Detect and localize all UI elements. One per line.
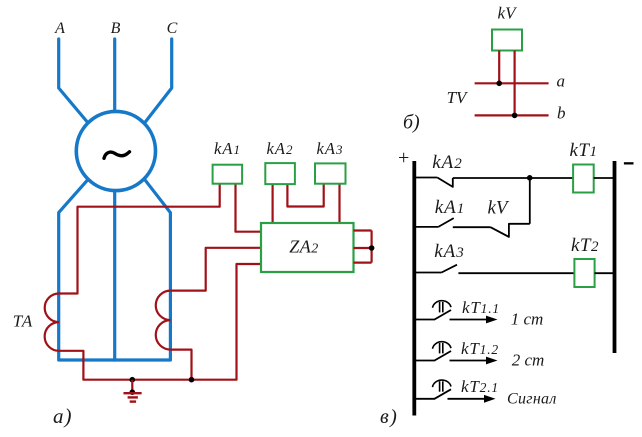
wire phase A lower (stator winding left leg)	[59, 180, 114, 360]
contact kT2.1 (time-delay contact)	[416, 380, 451, 399]
ZA2 output shorting bar	[371, 231, 373, 263]
voltage relay kV coil	[492, 30, 522, 51]
svg-text:+: +	[397, 147, 411, 169]
current transformer TA left secondary winding	[45, 294, 59, 351]
generator G1 tilde symbol	[104, 152, 130, 159]
ZA2 output junction node	[369, 245, 375, 251]
svg-text:1 ст: 1 ст	[511, 310, 544, 329]
negative supply bus	[613, 161, 617, 353]
svg-text:kT2: kT2	[571, 235, 599, 256]
generator G1 circle	[76, 111, 155, 190]
ZA2 right pin 3	[354, 262, 372, 264]
contact kA2	[416, 178, 453, 187]
svg-text:а): а)	[53, 404, 73, 428]
positive supply bus	[412, 161, 416, 416]
wire kA2 left lead to ZA2 top	[272, 184, 274, 223]
wire kA3 right lead to ZA2 top	[338, 184, 340, 223]
output arrow 2nd stage	[450, 357, 498, 365]
wire kA2 right lead to kA3 left lead	[287, 184, 323, 207]
wire row3 to kT2	[458, 272, 574, 274]
time relay coil kT1	[573, 165, 594, 193]
svg-text:2 ст: 2 ст	[512, 351, 545, 370]
contact kV	[491, 224, 530, 237]
wire from ZA2 pin to right CT	[171, 248, 262, 291]
svg-text:kT1.1: kT1.1	[462, 298, 500, 317]
svg-text:a: a	[557, 72, 566, 91]
wire from kA1 left lead to left CT	[59, 184, 220, 294]
wire kV branch riser to row1	[529, 178, 531, 224]
wire phase B lower (stator winding middle leg)	[113, 192, 116, 361]
svg-text:kT1: kT1	[570, 140, 598, 161]
svg-text:б): б)	[403, 112, 420, 134]
ZA2 right pin 1	[354, 229, 372, 231]
wire kT2 to negative bus	[595, 272, 613, 274]
relay coil kA1	[213, 165, 243, 184]
wire phase B top	[113, 39, 116, 111]
ground junction node	[130, 377, 136, 383]
minus terminal label	[624, 162, 634, 164]
wire kA1 right lead to ZA2	[236, 184, 262, 232]
wire kV coil right lead to line b	[513, 51, 515, 116]
relay coil kA2	[265, 163, 295, 184]
svg-text:kA3: kA3	[434, 241, 465, 262]
svg-text:kV: kV	[487, 198, 509, 219]
time relay coil kT2	[574, 259, 594, 287]
wire phase C top	[145, 39, 172, 123]
ground symbol	[124, 380, 142, 402]
svg-text:kA2: kA2	[432, 152, 463, 173]
junction node on line b	[512, 113, 518, 119]
svg-text:kV: kV	[498, 4, 519, 23]
wire line a	[475, 82, 549, 84]
junction node row1	[527, 175, 533, 181]
wire from left CT bottom to ground bus	[59, 264, 261, 380]
wire kA1 to kV contact	[453, 226, 491, 228]
svg-text:Сигнал: Сигнал	[507, 391, 557, 408]
svg-text:A: A	[54, 20, 65, 37]
svg-text:kA3: kA3	[317, 139, 344, 158]
svg-text:kT2.1: kT2.1	[461, 377, 499, 396]
junction node right CT to ground bus	[189, 377, 195, 383]
svg-text:C: C	[167, 20, 178, 37]
wire kV coil left lead to line a	[498, 51, 500, 84]
svg-text:kT1.2: kT1.2	[461, 339, 499, 358]
contact kT1.2 (time-delay contact)	[416, 342, 451, 361]
svg-text:B: B	[111, 20, 121, 37]
output arrow signal	[448, 395, 496, 403]
current transformer TA right secondary winding	[156, 291, 171, 350]
svg-text:в): в)	[380, 406, 398, 428]
output arrow 1st stage	[450, 316, 498, 324]
device ZA2	[261, 223, 354, 272]
svg-text:kA1: kA1	[214, 139, 241, 158]
svg-text:b: b	[557, 104, 566, 123]
wire line b	[475, 114, 549, 116]
relay coil kA3	[315, 163, 346, 183]
wire row1 to kT1	[453, 177, 573, 179]
svg-text:TA: TA	[13, 312, 34, 331]
wire phase A top	[59, 39, 88, 123]
svg-text:TV: TV	[447, 88, 469, 107]
contact kT1.1 (time-delay contact)	[416, 301, 451, 320]
contact kA1	[416, 218, 454, 227]
svg-text:kA1: kA1	[435, 197, 466, 218]
wire from right CT bottom to ground bus	[171, 350, 192, 380]
contact kA3	[416, 265, 457, 273]
ZA2 right pin 2	[354, 247, 372, 249]
junction node on line a	[496, 81, 502, 87]
wire kT1 to negative bus	[594, 177, 613, 179]
svg-text:kA2: kA2	[267, 139, 294, 158]
wire phase C lower (stator winding right leg)	[114, 180, 170, 360]
